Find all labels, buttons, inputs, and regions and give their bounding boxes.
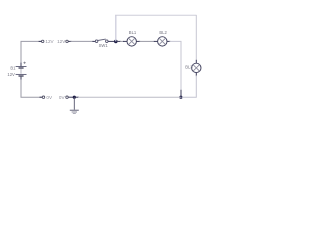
pin BL3 bottom (195, 72, 197, 76)
battery plus sign (23, 62, 25, 64)
wire switch to junction (108, 40, 116, 42)
ground symbol (70, 97, 79, 113)
svg-text:12V: 12V (57, 39, 66, 44)
pin terminal 0V left (40, 96, 43, 98)
svg-text:BL3: BL3 (185, 64, 193, 69)
switch pole circle (95, 40, 98, 43)
svg-text:B1: B1 (10, 65, 16, 70)
pin BL2 right (167, 40, 170, 42)
svg-text:BL1: BL1 (129, 30, 137, 35)
pin terminal 12V right (68, 40, 71, 42)
wire BL3 to bottom junction (182, 75, 197, 97)
pin battery positive (20, 63, 22, 67)
battery B1 (16, 62, 27, 76)
pin BL2 left (154, 40, 158, 42)
terminal 12V right (66, 40, 68, 42)
svg-text:SW1: SW1 (99, 43, 109, 48)
terminal 0V left (42, 96, 44, 98)
pin switch left (92, 40, 95, 42)
switch SW1 (95, 39, 108, 42)
battery plate short thick top (19, 67, 24, 69)
battery inner link (20, 69, 22, 74)
pin battery negative (20, 77, 22, 81)
node ground junction (73, 96, 76, 99)
svg-text:0V: 0V (59, 95, 66, 100)
wire junction to lamp BL1 (116, 40, 121, 42)
battery plate long bottom (16, 73, 27, 75)
ground bar 3 (73, 113, 76, 115)
svg-text:12V: 12V (45, 39, 54, 44)
pin BL1 left (123, 40, 127, 42)
terminal 0V right (66, 96, 68, 98)
wire bottom rail (78, 96, 181, 98)
ground bar 1 (70, 109, 79, 111)
svg-text:BL2: BL2 (159, 30, 167, 35)
wire battery bottom to 0V terminal (21, 80, 43, 98)
pin BL1 right (136, 40, 140, 42)
wire junction up and across top (115, 15, 117, 42)
svg-text:0V: 0V (46, 95, 53, 100)
wire BL1 to BL2 (140, 40, 155, 42)
ground stem (73, 97, 75, 110)
node junction bottom right (179, 96, 182, 99)
pin BL3 top (195, 60, 197, 64)
wire BL2 down to bottom rail (170, 41, 182, 90)
switch throw circle (106, 40, 109, 43)
wire 0V terminal to ground junction (68, 96, 79, 98)
battery plate short thick bottom (19, 75, 24, 77)
wire 12V terminal to switch (71, 40, 94, 42)
wire battery top to 12V terminal (21, 41, 42, 63)
switch lever (98, 39, 106, 40)
lamp BL2 (158, 37, 167, 46)
wire to BL1 mid (120, 40, 124, 42)
terminal 12V left (42, 40, 44, 42)
node junction top (114, 40, 118, 44)
wire segment dark above junction (180, 90, 182, 97)
svg-text:12V: 12V (7, 72, 15, 77)
battery plate long top (16, 66, 27, 68)
lamp BL1 (127, 37, 136, 46)
lamp BL3 (192, 63, 201, 72)
wire top horizontal (115, 14, 196, 16)
pin terminal 12V left (39, 40, 42, 42)
ground bar 2 (72, 111, 77, 113)
wire down to BL3 (195, 15, 197, 61)
